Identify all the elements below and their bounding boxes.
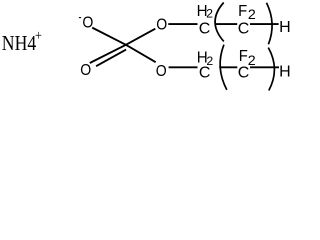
svg-text:H: H — [279, 64, 291, 81]
svg-text:O: O — [156, 16, 167, 34]
svg-text:C: C — [238, 21, 250, 38]
svg-text:O: O — [82, 14, 93, 32]
svg-text:2: 2 — [248, 53, 256, 69]
svg-text:2: 2 — [206, 7, 213, 21]
svg-text:O: O — [80, 61, 91, 79]
svg-text:H: H — [279, 19, 291, 36]
svg-text:O: O — [156, 62, 167, 80]
svg-text:C: C — [199, 21, 211, 38]
svg-text:+: + — [35, 27, 42, 43]
svg-text:2: 2 — [206, 54, 213, 68]
svg-text:F: F — [238, 2, 247, 20]
svg-text:F: F — [239, 48, 248, 66]
svg-text:NH4: NH4 — [2, 31, 37, 55]
svg-text:2: 2 — [248, 7, 256, 23]
